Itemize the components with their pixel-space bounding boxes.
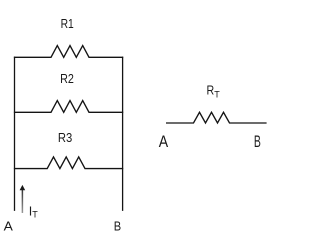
svg-text:T: T xyxy=(32,209,38,219)
resistor R1 xyxy=(14,46,123,58)
current arrow IT shaft xyxy=(21,190,23,214)
svg-text:R: R xyxy=(207,83,215,98)
svg-text:T: T xyxy=(214,90,220,100)
svg-text:R3: R3 xyxy=(58,131,72,145)
current arrow IT head xyxy=(20,185,26,190)
wire right vertical rail (node B side) xyxy=(122,57,124,211)
svg-text:R1: R1 xyxy=(61,17,74,31)
resistor R2 xyxy=(14,101,123,113)
resistor R3 xyxy=(14,157,123,169)
svg-text:B: B xyxy=(114,219,122,234)
wire left vertical rail (node A side) xyxy=(14,57,16,211)
resistor RT (equivalent) xyxy=(166,112,267,123)
svg-text:A: A xyxy=(4,219,13,234)
svg-text:R2: R2 xyxy=(60,72,74,86)
svg-text:A: A xyxy=(159,133,169,151)
svg-text:B: B xyxy=(254,133,261,151)
